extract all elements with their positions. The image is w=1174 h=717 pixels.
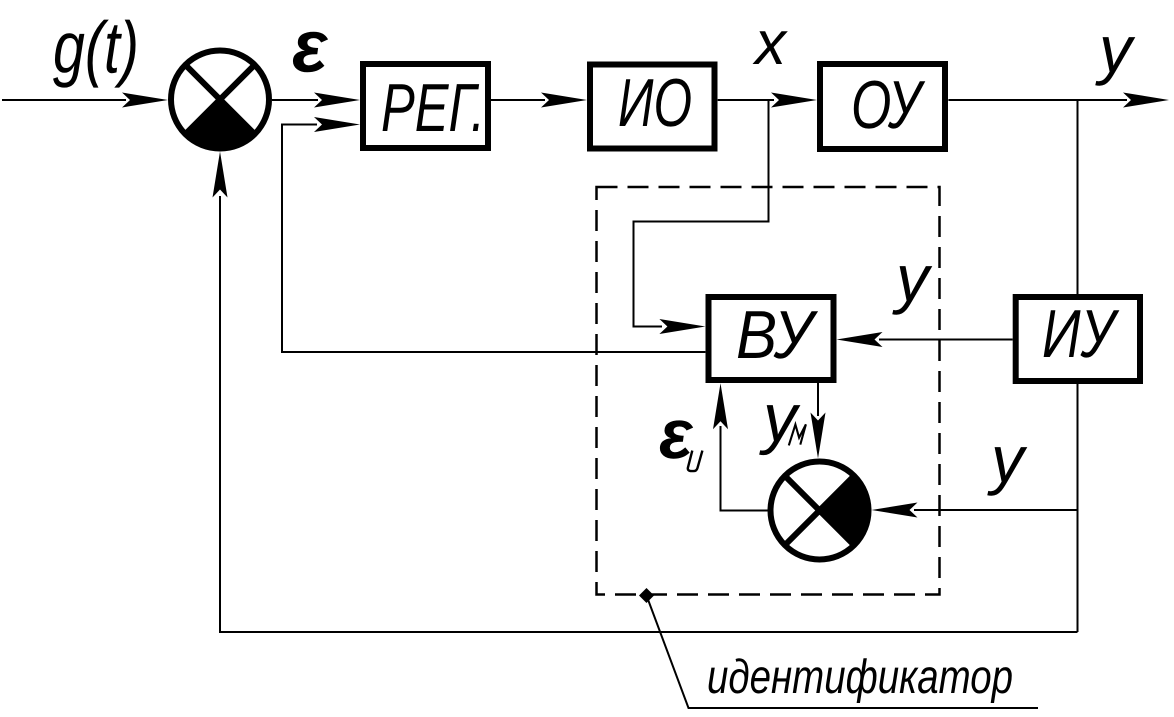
summing junction S2 — [771, 462, 869, 560]
svg-text:идентификатор: идентификатор — [707, 651, 1013, 704]
wire VU to S2 — [811, 383, 826, 459]
label epsilon_u — [659, 395, 702, 473]
wire REG to IO — [491, 93, 587, 108]
block OU — [820, 64, 945, 149]
block IU — [1016, 296, 1140, 381]
leader dot on dashed box — [639, 588, 654, 603]
wire S1 to REG — [272, 93, 360, 108]
svg-text:y: y — [1095, 12, 1136, 86]
summing junction S1 — [171, 51, 269, 149]
svg-text:y: y — [987, 422, 1028, 496]
svg-text:g(t): g(t) — [53, 8, 139, 89]
wire IU to VU — [837, 332, 1013, 347]
svg-text:ИУ: ИУ — [1042, 296, 1120, 372]
wire branch to S2 — [872, 503, 1078, 518]
wire VU feedback to REG input 2 — [282, 117, 705, 352]
svg-text:x: x — [752, 9, 788, 78]
svg-text:y: y — [759, 380, 801, 456]
wire x branch to VU — [634, 100, 769, 334]
svg-text:РЕГ.: РЕГ. — [381, 70, 485, 146]
wire IO to OU — [718, 93, 817, 108]
svg-text:ε: ε — [292, 5, 329, 88]
block REG — [363, 64, 488, 148]
svg-text:y: y — [892, 241, 933, 315]
wire input g(t) — [2, 93, 168, 108]
label y_m — [759, 380, 806, 456]
svg-text:ИО: ИО — [618, 65, 692, 141]
wire S2 to VU epsilon feedback — [713, 383, 768, 510]
dashed identifier box — [597, 187, 940, 595]
block VU — [709, 297, 834, 380]
wire output branch down to IU — [1077, 100, 1079, 294]
leader line to label — [647, 596, 1039, 709]
svg-text:ОУ: ОУ — [851, 67, 926, 143]
wire IU bottom down — [1077, 384, 1079, 632]
svg-text:ВУ: ВУ — [736, 297, 819, 373]
wire main feedback bottom — [213, 152, 1078, 633]
wire OU to output y — [948, 93, 1169, 108]
block IO — [590, 65, 715, 149]
